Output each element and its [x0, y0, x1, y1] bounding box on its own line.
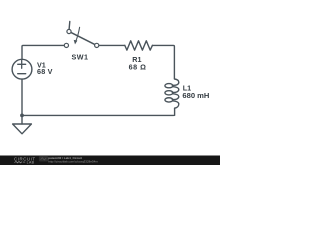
wire top-left from V1 to switch	[22, 45, 64, 59]
svg-text:LAB: LAB	[27, 161, 35, 165]
switch SW1 left terminal	[64, 43, 68, 47]
wire V1 bottom to junction	[21, 79, 23, 115]
svg-text:68 Ω: 68 Ω	[129, 63, 147, 72]
V1 plus sign	[18, 60, 26, 68]
V1 minus sign	[18, 73, 26, 75]
CircuitLab logo line LAB	[15, 161, 26, 163]
switch SW1 lever	[71, 32, 95, 44]
svg-text:680 mH: 680 mH	[182, 91, 209, 100]
switch SW1 arrowhead	[74, 40, 78, 45]
junction node at V1/ground	[20, 114, 24, 118]
inductor L1	[165, 79, 179, 108]
wire switch to resistor	[99, 44, 125, 46]
wire bottom	[22, 114, 174, 116]
switch SW1 top terminal	[67, 29, 71, 33]
svg-text:68 V: 68 V	[37, 67, 53, 76]
switch SW1 right terminal	[95, 43, 99, 47]
switch SW1 stub	[68, 21, 71, 29]
svg-text:SW1: SW1	[71, 53, 88, 62]
svg-text:http://circuitlab.com/c/ucsq33: http://circuitlab.com/c/ucsq3328e54m	[48, 160, 98, 164]
voltage source V1	[12, 59, 32, 79]
ground stub	[21, 115, 23, 124]
CircuitLab badge icon	[39, 156, 48, 161]
wire inductor bottom	[174, 108, 176, 115]
resistor R1	[125, 41, 153, 50]
switch SW1 actuator arrow	[76, 27, 80, 41]
watermark bar	[0, 156, 220, 166]
ground	[13, 124, 32, 134]
wire resistor to inductor top	[152, 45, 174, 78]
